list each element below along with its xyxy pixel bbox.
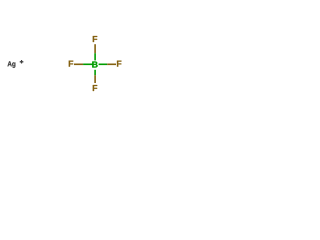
- background: [0, 0, 130, 130]
- bond B-F right, F half: [107, 63, 116, 65]
- atom F top: [93, 36, 97, 42]
- bond B-F left, B half: [83, 63, 92, 65]
- bond B-F bottom, F half: [94, 75, 96, 83]
- bond B-F right, B half: [99, 63, 108, 65]
- bond B-F bottom, B half: [94, 70, 96, 75]
- bond B-F top, B half: [94, 53, 96, 60]
- atom F left: [69, 61, 73, 67]
- bond B-F top, F half: [94, 44, 96, 53]
- cation Ag: [8, 61, 16, 67]
- cation charge +: [20, 60, 24, 64]
- atom B: [92, 62, 97, 68]
- atom F bottom: [93, 85, 97, 91]
- atom F right: [117, 61, 121, 67]
- bond B-F left, F half: [74, 63, 83, 65]
